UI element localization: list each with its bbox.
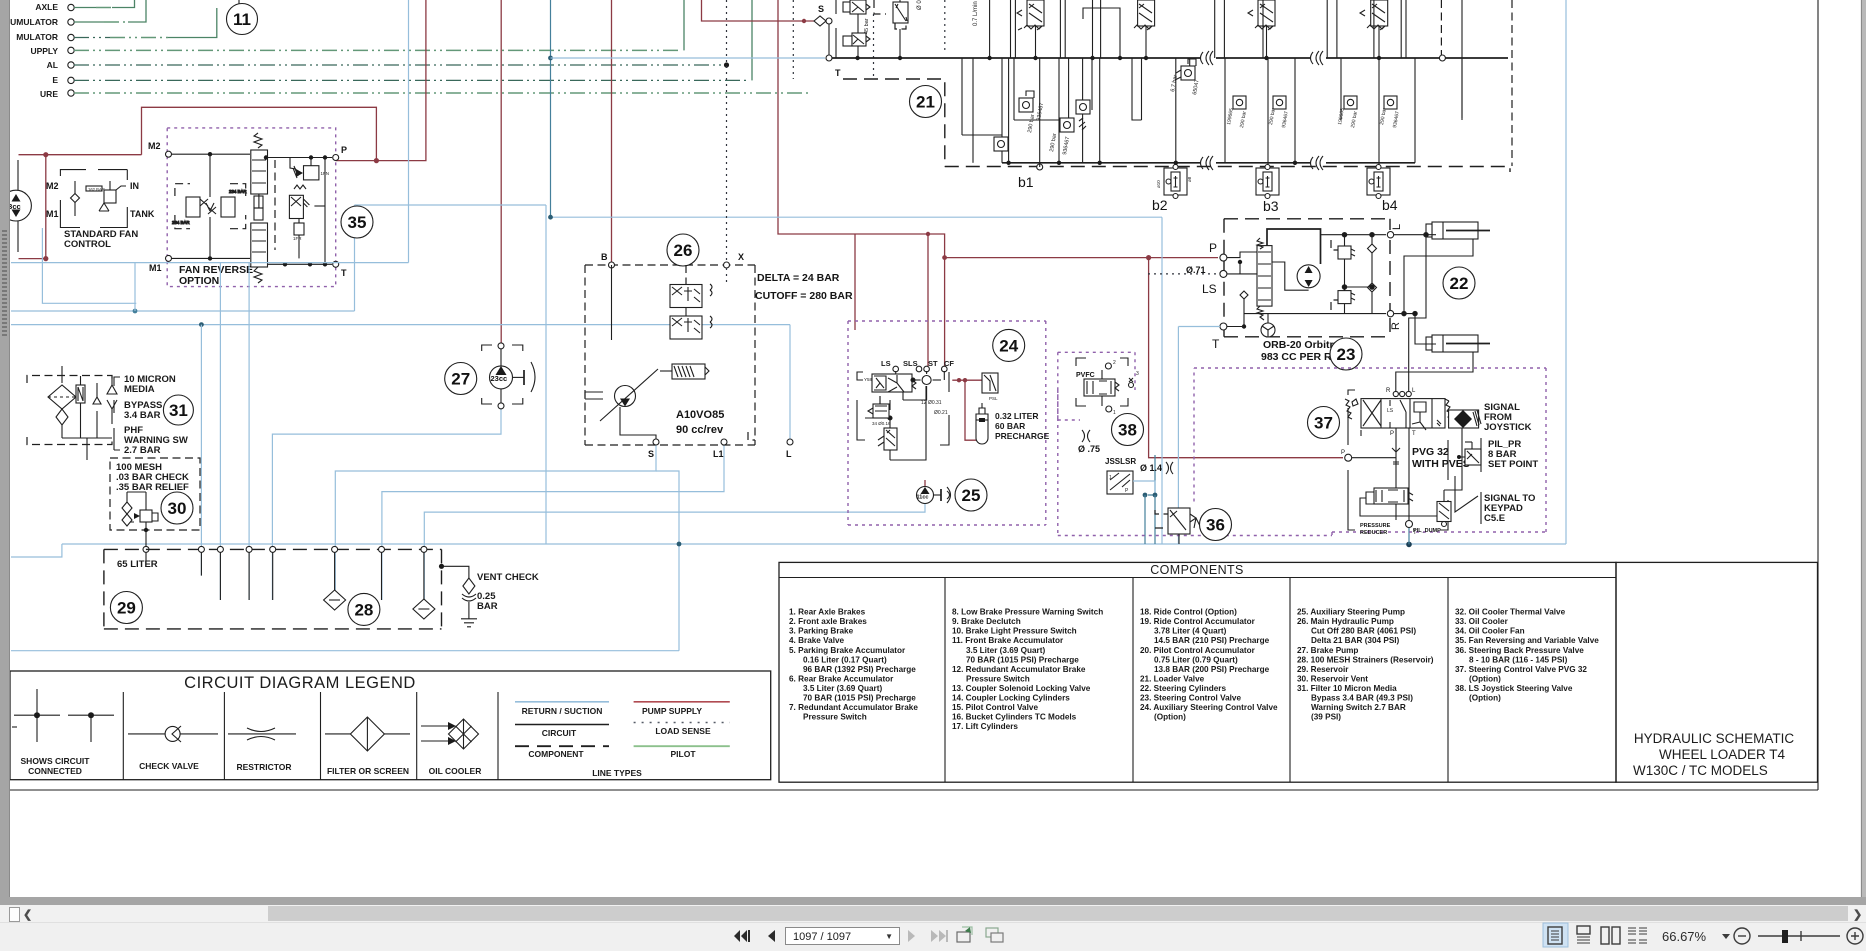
line type circuit [515,724,609,726]
stub L1 dashed [748,432,755,440]
wire JSSLSR blue [1133,481,1155,495]
svg-text:35: 35 [348,213,367,232]
svg-text:T: T [1413,530,1417,536]
svg-text:18. Ride Control (Option): 18. Ride Control (Option) [1140,608,1237,617]
return wire y311 [11,310,355,312]
junction fan x325 [323,155,327,159]
fan reverse spool valve upper [251,133,268,220]
svg-text:290 bar: 290 bar [1239,110,1248,128]
pilot wire row1 [74,7,96,9]
svg-text:1FR: 1FR [293,236,302,241]
balloon 38 [1112,414,1144,446]
svg-text:Bypass 3.4 BAR (49.3 PSI): Bypass 3.4 BAR (49.3 PSI) [1311,694,1413,703]
balloon 31 [163,395,193,425]
components list column 4 [1297,608,1434,722]
return wire y324.6 long [11,324,790,326]
pump26 main circle [585,369,658,421]
svg-text:936467: 936467 [1062,136,1071,155]
junction fan int 1 [208,152,212,156]
svg-text:CIRCUIT: CIRCUIT [542,728,577,738]
svg-text:9. Brake Declutch: 9. Brake Declutch [952,617,1021,626]
b3 relief pair [1226,96,1290,128]
svg-text:290 bar: 290 bar [1379,107,1388,125]
pump 25 feed [924,480,926,487]
svg-text:37: 37 [1314,414,1333,433]
24 block frame [857,372,949,445]
svg-text:(39 PSI): (39 PSI) [1311,713,1341,722]
balloon 11 [227,4,258,35]
svg-text:PRECHARGE: PRECHARGE [995,431,1050,441]
check valve S inlet [814,16,826,26]
bank riser x1374 [1373,0,1375,58]
bank riser x1100 [1100,0,1102,58]
reservoir stub x146 [145,552,147,565]
reservoir drop x249 [248,263,250,600]
b2 cushion block [1156,165,1192,199]
svg-text:35. Fan Reversing and Variable: 35. Fan Reversing and Variable Valve [1455,636,1599,645]
legend check valve [128,726,218,742]
teal drop x1155 [1154,495,1156,544]
fan solenoid valve 1FN [290,158,329,180]
junction row5 load-sense [724,62,729,67]
node T orbitrol [1220,323,1227,330]
pump 25 [917,487,951,504]
svg-text:JSSLSR: JSSLSR [1105,457,1136,466]
svg-text:26. Main Hydraulic Pump: 26. Main Hydraulic Pump [1297,617,1394,626]
components list column 1 [789,608,918,722]
svg-text:23. Steering Control Valve: 23. Steering Control Valve [1140,694,1241,703]
cylinder wires to orbitrol [1394,233,1473,392]
b3 cushion block [1256,165,1279,199]
bank riser x1406 [1405,0,1407,58]
svg-text:19. Ride Control Accumulator: 19. Ride Control Accumulator [1140,617,1256,626]
node PVG T bottom [1406,521,1413,528]
bank riser x1065 [1064,0,1066,58]
orbitrol P supply [945,257,1218,259]
schematic sheet frame right border [1817,0,1819,790]
svg-text:OIL COOLER: OIL COOLER [429,766,482,776]
standard fan control box [60,170,127,228]
svg-text:96 BAR (1392 PSI) Precharge: 96 BAR (1392 PSI) Precharge [803,665,916,674]
svg-text:65 LITER: 65 LITER [117,559,158,570]
steering cylinder bottom [1426,335,1490,352]
svg-text:Warning Switch 2.7 BAR: Warning Switch 2.7 BAR [1311,703,1406,712]
svg-text:199665: 199665 [1337,108,1346,126]
legend restrictor [228,728,296,740]
svg-text:R: R [1390,322,1402,330]
fan pump 23cc [1,160,32,252]
filter 31 symbol group [27,376,112,445]
balloon 22 [1443,267,1475,299]
pilot wire row6 [74,79,748,81]
line type return suction [515,701,609,703]
svg-text:4. Brake Valve: 4. Brake Valve [789,636,845,645]
reservoir node x381 [379,546,385,552]
lower bank bus y163 right2 [1326,162,1415,164]
restrictor 1.4 [1166,462,1173,474]
strainer 30 internals [122,492,158,540]
svg-text:38. LS Joystick Steering Valve: 38. LS Joystick Steering Valve [1455,684,1573,693]
svg-text:11. Front Brake Accumulator: 11. Front Brake Accumulator [952,636,1064,645]
svg-text:14.5 BAR (210 PSI) Precharge: 14.5 BAR (210 PSI) Precharge [1154,636,1270,645]
svg-text:DELTA = 24 BAR: DELTA = 24 BAR [757,272,840,284]
return wire x408.5 [408,0,410,263]
spool module 4 [1360,0,1388,58]
legend oil cooler [421,719,479,749]
24 check circle [922,376,931,385]
junction fan x325 b [323,262,327,266]
svg-text:290 bar: 290 bar [1350,110,1359,128]
svg-text:22. Steering Cylinders: 22. Steering Cylinders [1140,684,1226,693]
main bank bus y58 [832,57,1200,59]
pilot wire row5 [74,64,722,66]
fan counterbalance cluster dashed [172,154,247,258]
svg-text:15. Pilot Control Valve: 15. Pilot Control Valve [952,703,1038,712]
orbitrol check diamond b [1368,283,1377,292]
PVG T drop teal [1408,527,1410,544]
svg-text:B: B [601,252,608,262]
components column divider 3 [1289,578,1291,783]
svg-text:T: T [341,268,347,278]
orbitrol relief b [1331,291,1355,310]
junction psl 2 [963,378,967,382]
svg-text:CIRCUIT DIAGRAM LEGEND: CIRCUIT DIAGRAM LEGEND [184,674,416,692]
legend divider 2 [223,692,225,780]
svg-text:25. Auxiliary Steering Pump: 25. Auxiliary Steering Pump [1297,608,1405,617]
svg-text:Pressure Switch: Pressure Switch [966,674,1030,683]
components column divider 1 [944,578,946,783]
main bank bus y58 right2 [1326,57,1508,59]
svg-text:8. Low Brake Pressure Warning: 8. Low Brake Pressure Warning Switch [952,608,1103,617]
svg-text:234 BAR: 234 BAR [229,189,247,194]
svg-text:MULATOR: MULATOR [16,32,58,42]
balloon 25 [955,479,987,511]
svg-text:70 BAR (1015 PSI) Precharge: 70 BAR (1015 PSI) Precharge [966,655,1079,664]
schematic sheet blue frame line [1565,0,1567,544]
svg-text:30. Reservoir Vent: 30. Reservoir Vent [1297,674,1368,683]
orbitrol top bus [1321,234,1387,236]
balloon 26 [667,234,699,266]
vertical bus x325 fan [324,158,326,265]
JSSLSR drop teal [1148,455,1155,495]
svg-text:PUMP SUPPLY: PUMP SUPPLY [642,706,702,716]
return wire x354.5 riser [354,205,356,311]
node T valve bank [826,55,832,61]
svg-text:936467: 936467 [1281,111,1290,129]
components list column 5 [1455,608,1599,703]
svg-text:27: 27 [451,370,470,389]
strainer block 30 dashed box [110,458,200,530]
svg-text:23: 23 [1337,345,1356,364]
svg-text:22: 22 [1450,274,1469,293]
24 solenoid lower [872,386,926,460]
return wire y205 [355,204,547,206]
svg-text:60 BAR: 60 BAR [995,421,1025,431]
svg-text:L: L [1412,388,1416,394]
node bus right [1439,55,1445,61]
svg-text:162 BAR: 162 BAR [88,187,105,192]
schematic sheet frame bottom border [10,789,1818,791]
svg-text:0.16 Liter (0.17 Quart): 0.16 Liter (0.17 Quart) [803,655,887,664]
reservoir stub x272 [272,552,274,600]
svg-text:17. Lift Cylinders: 17. Lift Cylinders [952,722,1018,731]
load sense dotted vertical x945 top [944,0,946,50]
return into T [1178,326,1220,328]
node P orbitrol [1220,254,1227,261]
24 pressure reducer [868,396,889,418]
PVG P drop [1392,428,1409,522]
svg-text:5. Parking Brake Accumulator: 5. Parking Brake Accumulator [789,646,906,655]
svg-text:IN: IN [130,181,139,191]
wire 1FR to bus [314,205,325,207]
reservoir node x272 [270,546,276,552]
svg-text:36: 36 [1206,516,1225,535]
svg-text:1: 1 [1109,475,1112,481]
pilot wire row3 [74,37,110,39]
svg-text:3.5 Liter (3.69 Quart): 3.5 Liter (3.69 Quart) [966,646,1045,655]
pump supply branch to fan top [142,107,377,160]
strainer 30 outlet [145,540,147,549]
svg-text:W130C / TC MODELS: W130C / TC MODELS [1633,763,1768,778]
node R port [1387,310,1393,316]
balloon 30 [161,492,193,524]
components column divider 4 [1447,578,1449,783]
svg-text:L: L [1391,224,1403,230]
bank riser x1462 [1461,0,1463,118]
fan reverse spool valve lower [251,196,268,283]
orbitrol bottom bus [1244,313,1386,315]
fan pump supply wire left [19,154,142,156]
svg-text:290 bar: 290 bar [1268,107,1277,125]
load sense dotted into LS [1148,273,1219,275]
filter 31 inner [48,366,117,460]
bank riser x1015 [1014,0,1016,58]
svg-text:CONNECTED: CONNECTED [28,766,82,776]
bank step wire b3 [1132,58,1142,120]
svg-text:31: 31 [169,401,188,420]
node circle row6 [68,77,74,83]
relief valve bank b [994,137,1008,151]
svg-text:ø10: ø10 [1156,180,1161,188]
junction blue y324 [199,322,204,327]
svg-text:M1: M1 [46,209,59,219]
svg-text:TANK: TANK [130,209,155,219]
svg-text:16. Bucket Cylinders TC Models: 16. Bucket Cylinders TC Models [952,713,1077,722]
svg-text:URE: URE [40,89,58,99]
svg-text:23cc: 23cc [491,374,508,383]
svg-text:COMPONENT: COMPONENT [528,749,584,759]
svg-text:0.75 Liter (0.79 Quart): 0.75 Liter (0.79 Quart) [1154,655,1238,664]
components list column 2 [952,608,1103,732]
svg-text:PRESSURE: PRESSURE [1360,523,1391,529]
line type load sense [634,722,730,724]
svg-text:T: T [835,68,841,78]
fan reverse internal bus M2 [171,153,250,155]
return wire y262.6 [11,262,409,264]
svg-text:Ø0.21: Ø0.21 [934,410,948,416]
return wire x790 drop to L [789,325,791,442]
svg-text:b4: b4 [1382,197,1398,213]
svg-text:7. Redundant Accumulator Brake: 7. Redundant Accumulator Brake [789,703,918,712]
pump26 compensator valves [612,265,727,340]
svg-text:3.5 Liter (3.69 Quart): 3.5 Liter (3.69 Quart) [803,684,882,693]
main bank bus y58 right [1216,57,1310,59]
main return bus left tail [11,544,62,557]
svg-text:27. Brake Pump: 27. Brake Pump [1297,646,1358,655]
node B [609,262,615,268]
svg-text:PILOT: PILOT [670,749,696,759]
return wire y58 to valve bank T [551,57,826,59]
bank boundary dashed [843,79,945,167]
dashed link fan valves [274,160,276,250]
fan reverse option box [167,128,336,287]
title block box [1616,562,1818,782]
svg-text:M2: M2 [148,141,161,151]
b4 cushion block [1367,165,1390,199]
svg-text:ST: ST [928,359,938,368]
bank riser x1336 [1336,0,1338,58]
node L [787,439,793,445]
wire fan spool to P [268,157,333,159]
load sense dotted vertical x873 [873,14,875,79]
junction maroon x376 [374,158,379,163]
pump27 return loop [272,406,501,600]
svg-text:S: S [648,449,654,459]
svg-text:T: T [1212,337,1220,351]
svg-text:38: 38 [1118,421,1137,440]
main pump box 26 dashed [585,265,755,445]
strainer diamond x334 [324,590,346,610]
bank riser x1263 [1262,0,1264,58]
line type pump supply [634,701,730,703]
svg-text:X: X [738,252,744,262]
junction maroon S [802,19,806,23]
svg-text:290 bar: 290 bar [1027,114,1036,134]
reservoir stub x201 [200,552,202,576]
fan reverse internal bus M1 [171,257,250,259]
junction fan T2 [308,262,312,266]
bank riser x989 [989,0,991,58]
steering cylinder top [1426,222,1490,239]
balloon 24 [993,329,1025,361]
wire pump26 to S [620,407,656,439]
line type component [515,745,609,747]
bank dashed riser x1441 [1440,0,1442,55]
return wire x1162 orbitrol T drop [1161,217,1163,544]
balloon 28 [348,593,380,625]
valve bank solenoid unloader [893,0,923,58]
node circle row7 [68,90,74,96]
svg-text:29: 29 [117,599,136,618]
svg-text:32. Oil Cooler Thermal Valve: 32. Oil Cooler Thermal Valve [1455,608,1566,617]
svg-text:28. 100 MESH Strainers (Reserv: 28. 100 MESH Strainers (Reservoir) [1297,655,1434,664]
junction maroon x45.8 [43,152,48,157]
svg-text:WITH PVES: WITH PVES [1412,458,1470,470]
svg-text:31. Filter 10 Micron Media: 31. Filter 10 Micron Media [1297,684,1397,693]
pilot wire row4 [74,49,679,51]
components column divider 2 [1132,578,1134,783]
reservoir drop x201 [200,325,202,576]
svg-text:P: P [1209,241,1217,255]
svg-text:34. Oil Cooler Fan: 34. Oil Cooler Fan [1455,627,1525,636]
junction fan int 2 [208,256,212,260]
JSSLSR square [1107,471,1133,494]
svg-text:A10VO85: A10VO85 [676,409,724,421]
svg-text:0.32 LITER: 0.32 LITER [995,411,1038,421]
svg-text:(Option): (Option) [1154,713,1186,722]
svg-text:RESTRICTOR: RESTRICTOR [236,762,291,772]
svg-text:UMULATOR: UMULATOR [10,17,58,27]
node b1 [1037,164,1043,170]
svg-text:936467: 936467 [1392,111,1401,129]
return wire y650.7 [11,650,679,652]
orbitrol steering unit [1227,238,1272,329]
coupler ST drop [927,234,929,366]
junction blue jsslsr2 [1153,493,1158,498]
pump supply wire S feed [702,0,815,21]
node circle row5 [68,62,74,68]
pilot wire row7 [74,92,810,94]
return wire x546 drop [545,205,547,544]
legend divider 5 [497,692,499,780]
svg-text:SET POINT: SET POINT [1488,459,1538,470]
bank riser x1224 [1223,0,1225,58]
reservoir stub x249 [248,552,250,600]
svg-text:.35 BAR RELIEF: .35 BAR RELIEF [116,482,189,493]
pilot wire row2 [74,21,104,23]
balloon 21 [910,86,942,118]
bank riser x1060 [1059,0,1061,58]
node M2 prime [166,151,172,157]
svg-text:E: E [52,75,58,85]
svg-text:PVG 32: PVG 32 [1412,446,1449,458]
node CF24 [942,366,948,372]
svg-text:90 cc/rev: 90 cc/rev [676,424,724,436]
junction teal y544 b [1406,542,1412,548]
L1 return loop [382,442,724,600]
caption brackets 31 [114,377,120,450]
svg-text:WHEEL LOADER T4: WHEEL LOADER T4 [1659,747,1786,762]
relief valve bank d [1076,100,1090,114]
node LS24 [893,366,899,372]
svg-text:29. Reservoir: 29. Reservoir [1297,665,1349,674]
orbitrol inner link [1272,262,1309,290]
svg-text:(Option): (Option) [1469,694,1501,703]
purple box 24 [848,321,1046,525]
steering wheel [1261,314,1275,337]
junction fan T1 [283,262,287,266]
svg-text:25: 25 [962,486,981,505]
junction maroon orbitrol branch [1146,255,1151,260]
junction maroon coupler [926,232,930,236]
node X [724,262,730,268]
svg-text:2: 2 [1113,360,1116,366]
svg-text:AXLE: AXLE [35,2,58,12]
bank riser x1010 [1010,0,1012,58]
svg-text:Ø 1.4: Ø 1.4 [1140,463,1162,473]
svg-text:3. Parking Brake: 3. Parking Brake [789,627,854,636]
svg-text:14. Coupler Locking Cylinders: 14. Coupler Locking Cylinders [952,694,1070,703]
svg-text:PVFC: PVFC [1076,372,1095,379]
svg-text:T: T [1412,431,1416,437]
svg-text:28: 28 [354,600,373,619]
components header underline [779,577,1616,579]
svg-text:0.7 L/min: 0.7 L/min [973,1,979,26]
orbitrol feedback loop [1267,229,1321,264]
svg-text:CONTROL: CONTROL [64,239,111,250]
pressure reducer block [1360,488,1440,516]
svg-text:P: P [1390,431,1394,437]
